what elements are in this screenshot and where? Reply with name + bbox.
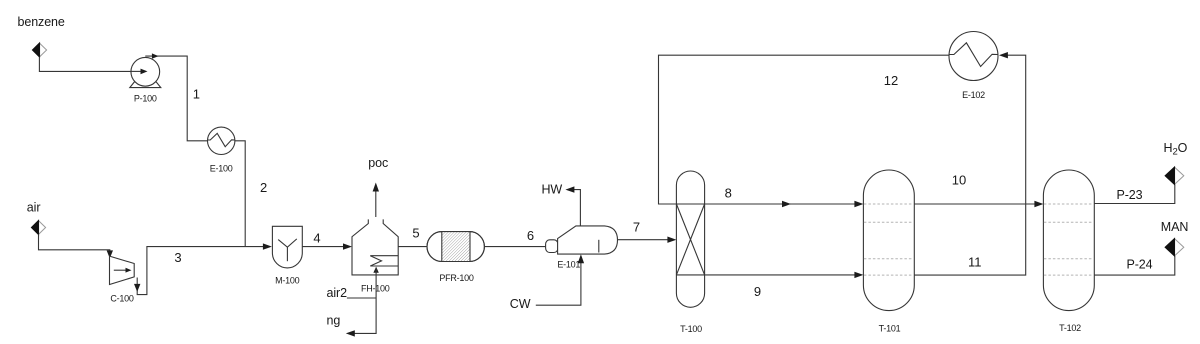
svg-text:air2: air2 [327,286,348,300]
label benzene [18,15,65,29]
arrow into T-100 [667,237,676,243]
svg-text:ng: ng [327,313,341,327]
svg-text:C-100: C-100 [110,294,134,304]
svg-text:MAN: MAN [1161,220,1189,234]
wire stream 6 [484,246,545,248]
arrow ng left [346,330,355,336]
column T-100 [676,171,704,307]
wire stream 12 return [659,55,950,204]
wire benzene feed to P-100 [39,57,143,72]
label E-102 [962,90,985,100]
svg-text:air: air [27,201,41,215]
product marker H2O [1165,167,1184,184]
label E-100 [210,163,233,173]
arrow on P-100 outlet [152,53,159,58]
svg-text:P-100: P-100 [134,94,157,104]
wire stream 9 [705,274,859,276]
svg-text:2: 2 [260,180,267,195]
wire stream 8 [705,203,859,205]
label PFR-100 [439,273,474,283]
wire air2 line [347,297,376,299]
arrow on C-100 outlet down [134,284,140,292]
feed marker benzene [33,43,47,57]
label stream 1 [193,86,200,101]
svg-text:11: 11 [968,254,982,269]
reactor PFR-100 [427,232,484,262]
label stream 8 [725,185,732,200]
wire C-100 outlet stream 3 [137,247,264,295]
label poc [368,156,388,170]
svg-text:T-101: T-101 [879,324,901,334]
wire M-100 outlet stream 4 [302,246,344,248]
label stream 12 [884,73,898,88]
arrow into M-100 [263,243,272,249]
svg-text:E-102: E-102 [962,90,985,100]
arrow into FH-100 [343,243,352,249]
label stream 9 [754,284,761,299]
svg-text:poc: poc [368,156,388,170]
svg-text:PFR-100: PFR-100 [439,273,474,283]
pump P-100 [130,57,161,87]
arrow stream 8 into T-101 [854,201,863,207]
arrow stream 10 into T-102 [1034,201,1043,207]
svg-text:T-102: T-102 [1059,323,1081,333]
exchanger E-101 [546,226,618,254]
svg-text:10: 10 [952,172,966,187]
mixer M-100 [272,226,302,268]
arrow poc up [373,183,379,192]
wire P-100 outlet stream 1 [145,56,207,141]
wire P-23 to H2O [1094,184,1175,203]
label T-101 [879,324,901,334]
label MAN [1161,220,1189,234]
label HW [542,183,563,197]
wire CW inlet [536,262,581,305]
column T-102 [1043,170,1094,311]
label stream 3 [174,250,181,265]
label stream 4 [313,231,320,246]
svg-text:8: 8 [725,185,732,200]
svg-text:CW: CW [510,297,531,311]
label stream 11 [968,254,982,269]
wire stream 5 [398,246,427,248]
arrow mid stream 8 [782,201,791,207]
label H2O [1164,141,1188,158]
svg-text:E-101: E-101 [557,260,580,270]
label C-100 [110,294,134,304]
arrow HW left [565,186,574,192]
column T-101 [863,170,914,311]
wire stream 11 riser to E-102 [914,55,1025,275]
label stream 2 [260,180,267,195]
label stream 5 [412,225,419,240]
svg-text:P-23: P-23 [1117,188,1143,202]
feed marker air [32,221,46,235]
arrow into C-100 [107,250,113,258]
wire stream 10 [914,203,1038,205]
wire HW outlet [574,190,580,226]
svg-text:E-100: E-100 [210,163,233,173]
svg-text:9: 9 [754,284,761,299]
arrow stream 9 into T-101 [854,272,863,278]
label P-100 [134,94,157,104]
svg-text:7: 7 [633,219,640,234]
arrow fuel into coil [373,267,378,273]
compressor C-100 [110,256,135,284]
label CW [510,297,531,311]
wire poc outlet [375,191,377,217]
label T-102 [1059,323,1081,333]
label air2 [327,286,348,300]
label P-23 [1117,188,1143,202]
label air [27,201,41,215]
svg-text:3: 3 [174,250,181,265]
label FH-100 [361,284,390,294]
wire stream 7 [618,239,669,241]
wire P-24 to MAN [1094,256,1175,275]
svg-text:5: 5 [412,225,419,240]
svg-text:T-100: T-100 [680,324,702,334]
arrow into P-100 [141,69,148,75]
svg-text:1: 1 [193,86,200,101]
svg-text:6: 6 [527,228,534,243]
fired heater FH-100 [352,219,398,275]
label ng [327,313,341,327]
label P-24 [1127,257,1153,271]
exchanger E-102 [949,32,998,81]
arrow CW up [578,254,584,263]
svg-text:P-24: P-24 [1127,257,1153,271]
label stream 10 [952,172,966,187]
svg-text:12: 12 [884,73,898,88]
heat exchanger E-100 [208,127,235,154]
label stream 6 [527,228,534,243]
product marker MAN [1165,239,1184,256]
arrow stream 11 into E-102 [999,52,1008,58]
svg-text:benzene: benzene [18,15,65,29]
label M-100 [275,276,300,286]
label E-101 [557,260,580,270]
svg-text:4: 4 [313,231,320,246]
svg-text:HW: HW [542,183,563,197]
svg-text:M-100: M-100 [275,276,300,286]
wire E-100 outlet stream 2 [235,141,245,247]
wire air feed to C-100 [39,234,110,251]
label T-100 [680,324,702,334]
svg-text:FH-100: FH-100 [361,284,390,294]
label stream 7 [633,219,640,234]
wire fuel line [355,268,377,333]
